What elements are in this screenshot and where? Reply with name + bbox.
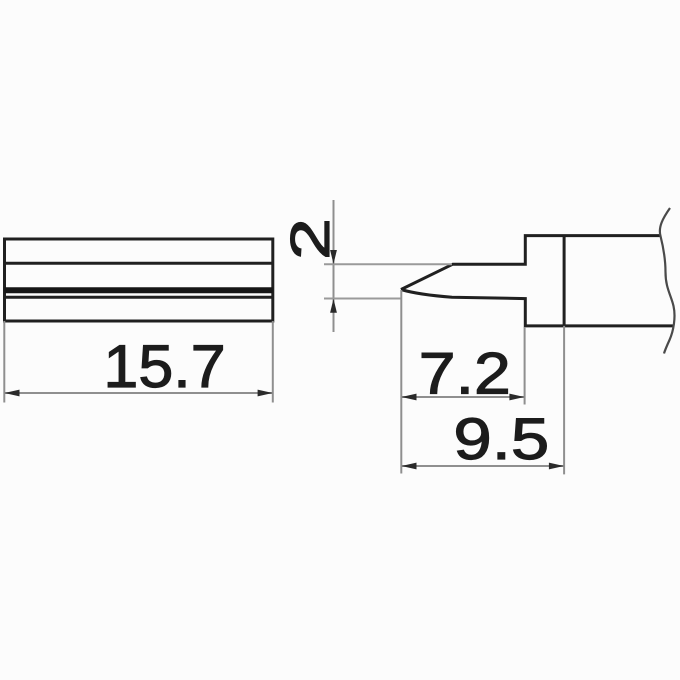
svg-text:7.2: 7.2 [419,342,511,406]
dimension 15.7: value label [103,333,225,400]
top view: blade lower face line [5,296,273,299]
dimension 9.5: left arrowhead [402,463,417,470]
dimension 2: upper extension line [324,263,452,265]
dimension 7.2: dimension line [401,396,524,398]
dimension 15.7: left extension line [3,321,5,403]
dimension 15.7: left arrowhead [5,390,20,397]
dimension 9.5: right extension line (joint line extended) [563,326,565,475]
dimension 9.5: right arrowhead [549,463,564,470]
dimension 2: lower extension line [324,298,402,300]
dimension 7.2: right extension line [524,327,526,405]
dimension 7.2: left extension line (from blade tip) [400,290,402,474]
side view: plating joint line [563,236,566,326]
top view: blade upper face line [5,262,273,265]
svg-text:15.7: 15.7 [103,333,225,400]
dimension 7.2: right arrowhead [509,394,524,401]
dimension 7.2: value label [419,342,511,406]
dimension 9.5: value label [453,406,549,472]
dimension 2: upper arrowhead pointing down [330,250,337,264]
dimension 15.7: right extension line [272,321,274,403]
top view: blade cutting edge thick line [5,287,273,293]
top view: blade outline rectangle [5,239,273,321]
dimension 2: vertical dimension line [333,200,335,332]
side view: break (wavy) line [660,208,675,354]
dimension 2: lower arrowhead pointing up [330,299,337,313]
svg-text:2: 2 [279,218,341,260]
dimension 7.2: left arrowhead [402,394,417,401]
dimension 9.5: dimension line [401,465,564,467]
svg-text:9.5: 9.5 [453,406,549,472]
dimension 2: value label rotated [279,218,341,260]
dimension 15.7: dimension line [4,392,273,394]
side view: blade and shank outline [401,236,673,326]
dimension 15.7: right arrowhead [258,390,273,397]
